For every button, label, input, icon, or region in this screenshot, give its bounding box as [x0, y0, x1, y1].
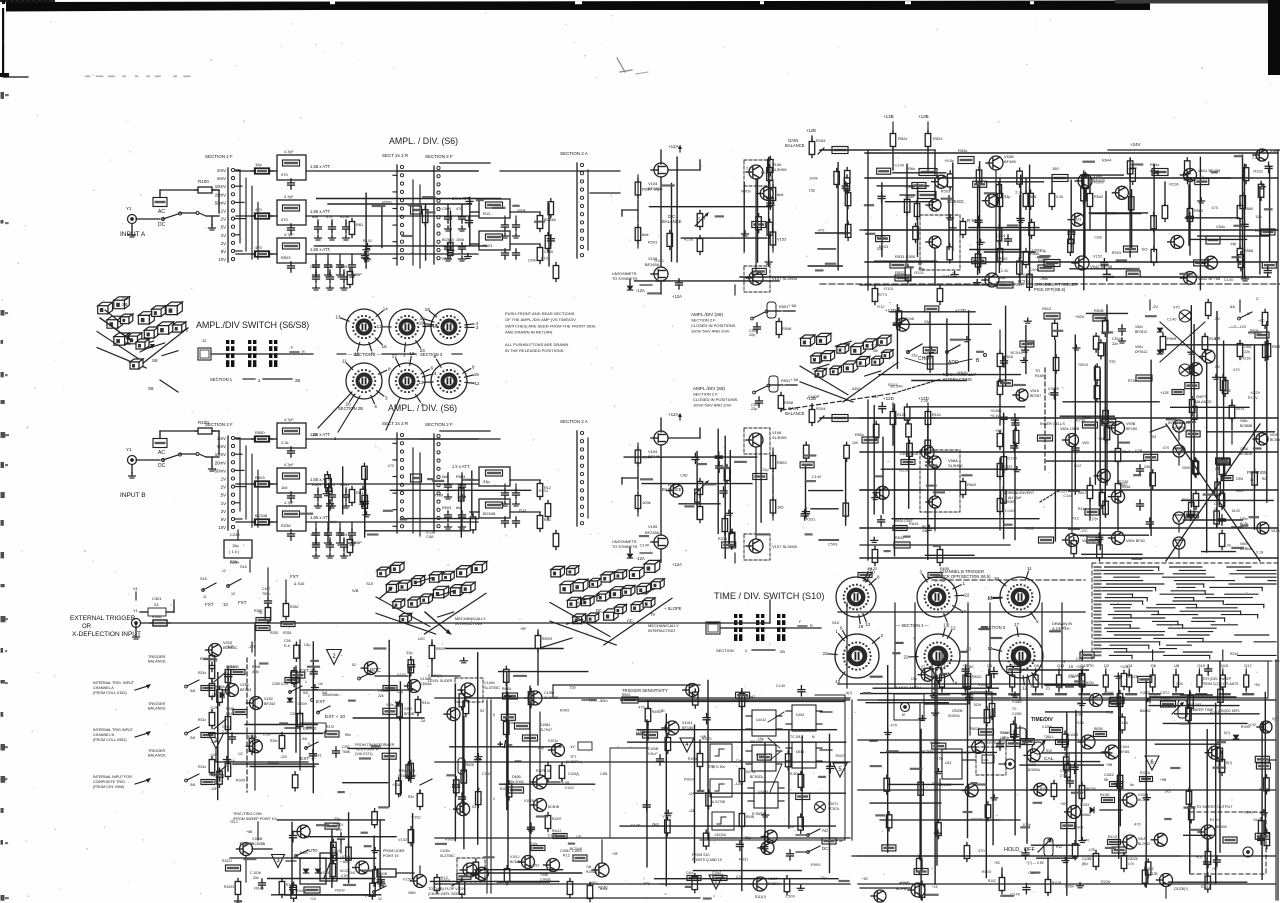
svg-text:R503: R503: [312, 483, 321, 487]
svg-text:R331: R331: [718, 536, 728, 541]
svg-text:SL3T05C: SL3T05C: [484, 686, 500, 690]
svg-text:( 1 k ): ( 1 k ): [229, 549, 240, 554]
svg-text:+51: +51: [1098, 437, 1104, 441]
svg-text:BALANCE: BALANCE: [148, 707, 166, 711]
svg-text:Y1: Y1: [126, 206, 132, 211]
svg-text:2.2k: 2.2k: [1252, 155, 1260, 160]
svg-text:470: 470: [388, 463, 395, 468]
svg-text:C509: C509: [785, 893, 795, 898]
svg-text:+2.2V: +2.2V: [1250, 391, 1260, 395]
svg-text:-2.5Y: -2.5Y: [340, 874, 349, 878]
svg-text:SL3H05: SL3H05: [772, 435, 787, 440]
svg-text:19: 19: [952, 681, 958, 686]
svg-text:SECT 2x 2 R: SECT 2x 2 R: [382, 421, 409, 426]
svg-text:C56: C56: [1144, 465, 1150, 469]
svg-text:C301: C301: [152, 596, 162, 601]
svg-text:BC548: BC548: [1011, 350, 1024, 355]
svg-text:R503: R503: [255, 475, 265, 480]
svg-text:4.7pF: 4.7pF: [284, 418, 294, 422]
svg-text:4.7pF: 4.7pF: [284, 150, 294, 154]
svg-text:10mV: 10mV: [215, 452, 226, 457]
svg-text:X1: X1: [133, 586, 139, 591]
svg-text:R632: R632: [895, 536, 904, 540]
svg-text:BC548C: BC548C: [223, 646, 238, 650]
svg-text:R6x: R6x: [345, 733, 351, 737]
svg-text:50mV: 50mV: [215, 468, 226, 473]
svg-text:V60x BF40: V60x BF40: [1126, 539, 1145, 543]
svg-text:+12A: +12A: [668, 412, 679, 417]
svg-text:R: R: [302, 350, 305, 354]
svg-text:BC548: BC548: [483, 511, 496, 516]
svg-text:R101: R101: [884, 286, 894, 291]
svg-text:R31x: R31x: [422, 701, 430, 705]
svg-text:BC548B: BC548B: [252, 842, 266, 846]
svg-text:R331: R331: [312, 753, 322, 758]
svg-text:15p: 15p: [569, 684, 576, 689]
svg-text:R568: R568: [1244, 249, 1253, 253]
svg-text:R503: R503: [648, 239, 658, 244]
svg-text:BC5HB: BC5HB: [548, 805, 560, 809]
svg-text:R169: R169: [1035, 374, 1044, 378]
svg-text:BF245A: BF245A: [645, 530, 660, 535]
svg-text:V30x: V30x: [386, 703, 394, 707]
svg-text:R236: R236: [281, 523, 291, 528]
svg-text:2mV: 2mV: [217, 168, 226, 173]
svg-text:BALANCE: BALANCE: [148, 660, 166, 664]
svg-text:D613: D613: [796, 750, 804, 754]
svg-text:BF150: BF150: [1126, 427, 1137, 431]
svg-text:1,65 x ATT.: 1,65 x ATT.: [310, 515, 331, 520]
svg-text:FROM LIDER: FROM LIDER: [383, 849, 405, 853]
svg-text:1,65 x ATT.: 1,65 x ATT.: [310, 164, 331, 169]
svg-text:4.7pF: 4.7pF: [284, 233, 294, 237]
svg-text:Q2: Q2: [1104, 663, 1110, 668]
svg-text:S/6: S/6: [190, 736, 195, 740]
svg-text:C88: C88: [1183, 428, 1191, 433]
svg-text:U4Z: U4Z: [945, 761, 951, 765]
svg-text:INNER CELLS: INNER CELLS: [1040, 422, 1065, 426]
svg-text:R26B: R26B: [252, 665, 261, 669]
svg-text:2V: 2V: [221, 509, 226, 514]
svg-text:R771: R771: [878, 293, 887, 297]
svg-text:2: 2: [308, 694, 310, 698]
svg-text:C40x: C40x: [686, 871, 694, 875]
svg-text:C627: C627: [1004, 465, 1012, 469]
svg-text:C140: C140: [1167, 317, 1177, 322]
svg-text:AMPL./DIV (S8): AMPL./DIV (S8): [691, 312, 724, 317]
svg-text:(+5V)DC DEFL: (+5V)DC DEFL: [1218, 709, 1240, 713]
svg-text:R909: R909: [741, 189, 751, 194]
svg-text:R3x: R3x: [408, 795, 414, 799]
svg-text:-17B: -17B: [1088, 848, 1095, 852]
svg-text:+5C: +5C: [862, 877, 869, 881]
svg-text:TO SYMMETR.: TO SYMMETR.: [612, 545, 638, 549]
svg-text:V152: V152: [565, 785, 575, 790]
svg-text:.2V: .2V: [220, 217, 227, 222]
svg-text:R60x: R60x: [855, 433, 864, 437]
svg-text:C25x: C25x: [222, 725, 230, 729]
svg-text:15p: 15p: [911, 353, 918, 358]
svg-text:+24V: +24V: [1130, 142, 1141, 147]
svg-text:470: 470: [638, 704, 645, 709]
svg-text:R550: R550: [382, 200, 392, 205]
svg-text:-12A: -12A: [636, 288, 645, 293]
svg-text:22n: 22n: [1112, 342, 1118, 346]
svg-text:R909: R909: [811, 862, 821, 867]
svg-text::10: :10: [222, 602, 228, 607]
svg-text:12: 12: [378, 897, 382, 901]
svg-text:C: C: [1256, 296, 1259, 301]
svg-text:6a: 6a: [1130, 783, 1134, 787]
svg-text:33p: 33p: [1040, 248, 1047, 253]
svg-text:22k: 22k: [378, 694, 384, 698]
svg-text:BC548: BC548: [1018, 279, 1031, 284]
svg-text:V152: V152: [397, 672, 407, 677]
svg-text:M: M: [902, 713, 905, 717]
svg-text:R716: R716: [1128, 379, 1136, 383]
svg-text:10mV 5mV AND 2mV: 10mV 5mV AND 2mV: [693, 403, 732, 408]
svg-text:+5F: +5F: [1212, 867, 1218, 871]
svg-text:R12: R12: [441, 875, 449, 880]
svg-text:R331: R331: [914, 270, 924, 275]
svg-text:470: 470: [281, 172, 288, 177]
svg-text:5CM: 5CM: [974, 703, 981, 707]
svg-text:R331: R331: [539, 488, 549, 493]
svg-text:SL7H47: SL7H47: [540, 728, 552, 732]
svg-text:11: 11: [1027, 566, 1032, 571]
svg-text:11: 11: [203, 595, 207, 599]
svg-text:TO: TO: [1035, 369, 1040, 373]
svg-text:22p: 22p: [751, 407, 757, 411]
svg-text:470: 470: [1163, 445, 1170, 450]
svg-text:TIME/DIV: TIME/DIV: [1031, 717, 1053, 723]
svg-text:V152: V152: [548, 832, 558, 837]
svg-text:10mV 5mV AND 2mV: 10mV 5mV AND 2mV: [691, 329, 730, 334]
svg-text:C140: C140: [1005, 508, 1015, 513]
svg-text:+13B: +13B: [883, 114, 894, 119]
svg-text:R331: R331: [340, 483, 349, 487]
svg-text:+ 5A: + 5A: [788, 303, 797, 308]
svg-text:BF459: BF459: [1004, 159, 1017, 164]
svg-text:DC: DC: [158, 222, 166, 228]
svg-text:2mV: 2mV: [217, 436, 226, 441]
svg-text:33n: 33n: [253, 876, 259, 880]
svg-text:R562: R562: [1194, 209, 1203, 213]
svg-text:R154: R154: [816, 138, 826, 143]
svg-text:R508: R508: [784, 401, 793, 405]
svg-text:C140: C140: [942, 274, 952, 279]
svg-text:C140: C140: [655, 278, 665, 283]
svg-text:4.7pF: 4.7pF: [284, 195, 294, 199]
svg-text:LEVEL SLIDER: LEVEL SLIDER: [428, 679, 453, 683]
svg-text:(VIA C371): (VIA C371): [355, 752, 373, 756]
svg-text:R542: R542: [1094, 195, 1103, 199]
svg-text:R(?): R(?): [1226, 761, 1232, 765]
svg-text:1,65 x ATT.: 1,65 x ATT.: [310, 209, 331, 214]
svg-text:(FROM COLL.V152): (FROM COLL.V152): [93, 691, 127, 695]
svg-text:R236: R236: [1119, 479, 1129, 484]
svg-text:S/6: S/6: [302, 737, 307, 741]
svg-text:C42B6: C42B6: [1082, 857, 1092, 861]
svg-text:100k: 100k: [456, 238, 464, 242]
svg-text:+(?) — 0.5V: +(?) — 0.5V: [1026, 861, 1045, 865]
svg-text:2B: 2B: [295, 378, 300, 383]
svg-text:R531 C500: R531 C500: [895, 254, 916, 259]
svg-text:C100x: C100x: [484, 681, 495, 685]
svg-text:+5B: +5B: [246, 830, 253, 834]
svg-text:10V: 10V: [218, 257, 226, 262]
svg-text:DC: DC: [158, 463, 166, 469]
svg-text:INTERACTING: INTERACTING: [648, 628, 675, 633]
svg-text:R550: R550: [642, 187, 652, 192]
svg-text:U8: U8: [1174, 663, 1180, 668]
svg-text:Q9: Q9: [1034, 663, 1040, 668]
svg-text:2.2k: 2.2k: [281, 440, 289, 445]
svg-text:INPUT B: INPUT B: [120, 492, 146, 499]
svg-text:V10ZB: V10ZB: [1068, 733, 1079, 737]
svg-text:S10: S10: [366, 581, 374, 586]
svg-text:100k: 100k: [528, 257, 537, 262]
svg-text:470: 470: [1173, 305, 1180, 310]
svg-text:ALT: ALT: [872, 394, 880, 399]
svg-text:SECTION 1: SECTION 1: [210, 377, 233, 382]
svg-text:R101: R101: [654, 258, 664, 263]
svg-text:+1Z: +1Z: [932, 885, 938, 889]
svg-text:-2A: -2A: [420, 719, 426, 723]
svg-text:1k5: 1k5: [281, 485, 288, 490]
svg-text:V152: V152: [264, 697, 273, 701]
svg-text:BALANCE: BALANCE: [1194, 400, 1212, 404]
svg-text:INPUT A: INPUT A: [120, 231, 146, 238]
svg-text:100k: 100k: [458, 493, 467, 498]
svg-text:C100(J): C100(J): [568, 772, 579, 776]
svg-text:C140: C140: [1224, 277, 1234, 282]
svg-text:SECTION: SECTION: [716, 648, 734, 653]
svg-text:+12A: +12A: [672, 294, 682, 299]
svg-text:(B)x: (B)x: [1082, 862, 1088, 866]
svg-text:R331: R331: [1253, 169, 1263, 174]
svg-text:DC: DC: [596, 608, 602, 613]
svg-text:R25B: R25B: [230, 665, 239, 669]
svg-text:S6: S6: [122, 296, 128, 301]
svg-text:6k8: 6k8: [777, 192, 784, 197]
svg-text:UNSYMMETR.: UNSYMMETR.: [612, 272, 638, 276]
svg-text:2.2k: 2.2k: [746, 166, 754, 171]
svg-text:R25x: R25x: [230, 560, 238, 564]
svg-text:R253: R253: [283, 631, 291, 635]
svg-text:V107 SL3H05: V107 SL3H05: [772, 544, 798, 549]
svg-text:— SECTION 2 —: — SECTION 2 —: [348, 352, 382, 357]
svg-text:33p: 33p: [396, 689, 403, 694]
svg-text:R: R: [810, 624, 813, 628]
svg-text:AC: AC: [627, 618, 633, 623]
svg-text:V51F: V51F: [1138, 837, 1146, 841]
svg-text:1V: 1V: [221, 233, 226, 238]
svg-text:R154: R154: [816, 406, 826, 411]
svg-text:19: 19: [474, 372, 480, 377]
svg-text:22: 22: [903, 655, 909, 660]
svg-text:S6: S6: [152, 358, 158, 363]
svg-text:18: 18: [425, 307, 431, 312]
svg-text:R411B: R411B: [1100, 793, 1110, 797]
svg-text:C509: C509: [828, 542, 838, 547]
svg-text:C509: C509: [298, 701, 308, 706]
svg-text:V253: V253: [223, 641, 232, 645]
svg-text:C509: C509: [1023, 272, 1033, 277]
svg-text:BF252: BF252: [264, 702, 275, 706]
svg-text:15p: 15p: [820, 875, 827, 880]
svg-text:+/–: +/–: [497, 739, 513, 751]
svg-text:C35:: C35:: [284, 639, 291, 643]
svg-text:22k: 22k: [1215, 467, 1221, 471]
svg-text:R81: R81: [356, 222, 364, 227]
svg-text:R331: R331: [806, 516, 816, 521]
svg-text:52: 52: [352, 663, 356, 667]
svg-text:BALANCE: BALANCE: [785, 143, 805, 148]
svg-text:C167: C167: [262, 587, 270, 591]
svg-text:X-DEFLECTION INPUT: X-DEFLECTION INPUT: [72, 631, 141, 638]
svg-text:33p: 33p: [406, 650, 413, 655]
svg-text:17: 17: [1014, 622, 1020, 627]
svg-text:S/6: S/6: [190, 689, 195, 693]
svg-text:CLOSED IN POSITIONS: CLOSED IN POSITIONS: [691, 323, 736, 328]
svg-text:R236: R236: [1169, 181, 1179, 186]
svg-text:15p: 15p: [1255, 214, 1262, 219]
svg-text:R104: R104: [1000, 731, 1008, 735]
svg-text:50mV: 50mV: [215, 200, 226, 205]
svg-text:-12A: -12A: [636, 556, 645, 561]
svg-text:+12A: +12A: [392, 783, 401, 787]
svg-text:4.7pF: 4.7pF: [284, 501, 294, 505]
svg-text:R12: R12: [1074, 463, 1082, 468]
svg-text:V104B: V104B: [1140, 691, 1150, 695]
svg-text:POINT 19: POINT 19: [383, 854, 399, 858]
svg-text:SECTION 2 A: SECTION 2 A: [560, 151, 588, 156]
svg-text:A-S1T0B: A-S1T0B: [712, 800, 725, 804]
svg-text:+12A: +12A: [672, 562, 682, 567]
svg-text:CHANNEL A: CHANNEL A: [93, 686, 114, 690]
svg-text:R236: R236: [340, 215, 349, 219]
svg-text:Y1: Y1: [126, 447, 132, 452]
svg-text:PICK OFF(SECTION S6.5): PICK OFF(SECTION S6.5): [940, 574, 991, 579]
svg-text:R107B 16: R107B 16: [536, 769, 550, 773]
svg-text:R-b: R-b: [284, 644, 290, 648]
svg-text:R12: R12: [483, 211, 491, 216]
svg-text:0.5u F: 0.5u F: [648, 752, 657, 756]
svg-text:R550: R550: [255, 430, 265, 435]
svg-text:SECTION 3: SECTION 3: [420, 352, 443, 357]
svg-text:BC90ZA: BC90ZA: [750, 775, 764, 779]
svg-text:R644: R644: [909, 521, 919, 526]
svg-text:BC558B: BC558B: [1240, 424, 1253, 428]
svg-text:33p: 33p: [483, 479, 490, 484]
svg-text:R503: R503: [281, 255, 291, 260]
svg-text:PICK OFF(SB.5): PICK OFF(SB.5): [1034, 287, 1066, 292]
svg-text:C10x2: C10x2: [712, 871, 721, 875]
svg-text:2.2k: 2.2k: [921, 398, 929, 403]
svg-text:C88: C88: [1094, 235, 1102, 240]
svg-text:V50x: V50x: [1135, 345, 1143, 349]
svg-text:SECT 2x 2 R: SECT 2x 2 R: [382, 153, 409, 158]
svg-text:1: 1: [305, 680, 307, 684]
svg-text:15p: 15p: [232, 543, 239, 548]
svg-text:100k: 100k: [517, 208, 526, 213]
svg-text:UNSYMMETR.: UNSYMMETR.: [612, 540, 638, 544]
svg-text:V152: V152: [441, 255, 451, 260]
svg-text:R508: R508: [782, 327, 791, 331]
svg-text:EXTERNAL TRIGGER: EXTERNAL TRIGGER: [70, 615, 136, 622]
svg-text:C140: C140: [631, 823, 641, 828]
svg-text:10mV: 10mV: [215, 184, 226, 189]
svg-text:R236: R236: [899, 881, 909, 886]
svg-text:TIME / DIV. SWITCH (S10): TIME / DIV. SWITCH (S10): [714, 591, 824, 601]
svg-text:ALL PUSHBUTTONS ARE DRAWN: ALL PUSHBUTTONS ARE DRAWN: [505, 342, 569, 347]
svg-text:V10x0: V10x0: [1104, 691, 1114, 695]
svg-text:INTERNAL TRIG. INPUT: INTERNAL TRIG. INPUT: [93, 681, 135, 685]
svg-text:33p: 33p: [745, 835, 752, 840]
svg-text:U1012: U1012: [756, 718, 766, 722]
svg-text:R236: R236: [899, 467, 909, 472]
svg-text:+12E: +12E: [1160, 391, 1169, 395]
svg-text:C1F1J: C1F1J: [1160, 691, 1170, 695]
svg-text:R503: R503: [456, 475, 465, 479]
svg-text:CHANNEL B: CHANNEL B: [93, 733, 115, 737]
svg-text:11: 11: [377, 324, 382, 329]
svg-text:BC548C: BC548C: [510, 860, 523, 864]
svg-text:R900S: R900S: [542, 637, 553, 641]
svg-text:BC5x: BC5x: [1086, 681, 1094, 685]
svg-text:S10: S10: [832, 620, 840, 625]
svg-text:SECTION 2 F: SECTION 2 F: [425, 154, 453, 159]
svg-text:(5.8): (5.8): [252, 670, 259, 674]
svg-text:33p: 33p: [1004, 195, 1010, 199]
svg-text:+5F: +5F: [520, 627, 526, 631]
svg-text:2.2k: 2.2k: [1223, 543, 1231, 548]
svg-text:R41JZ: R41JZ: [1108, 835, 1117, 839]
svg-text:Q10: Q10: [1197, 663, 1205, 668]
svg-text:R52x: R52x: [898, 136, 907, 141]
svg-text:V101x: V101x: [548, 739, 558, 743]
svg-text:R1001: R1001: [296, 889, 306, 893]
svg-text:22: 22: [823, 651, 829, 656]
svg-text:BC4HC: BC4HC: [1216, 825, 1228, 829]
svg-text:R10Z: R10Z: [988, 879, 996, 883]
svg-text:EXT: EXT: [316, 699, 325, 705]
svg-text:TC-15L4: TC-15L4: [790, 735, 803, 739]
svg-text:15p: 15p: [762, 467, 769, 472]
svg-text:SECTION 2 A: SECTION 2 A: [560, 419, 588, 424]
svg-text:(FROM COLL.V552): (FROM COLL.V552): [93, 738, 127, 742]
svg-text:470: 470: [255, 207, 262, 212]
svg-text:(EXT.)DEL SWEEP: (EXT.)DEL SWEEP: [1202, 677, 1232, 681]
svg-text:+9M: +9M: [1106, 763, 1113, 767]
svg-text:-2V: -2V: [1152, 305, 1158, 309]
svg-text:10: 10: [870, 569, 876, 574]
svg-text:R12: R12: [1072, 515, 1080, 520]
svg-text:2.2k: 2.2k: [1001, 268, 1009, 273]
svg-text:CLOSED IN POSITIONS: CLOSED IN POSITIONS: [693, 397, 738, 402]
svg-text:NORMAL/INVERT: NORMAL/INVERT: [1003, 491, 1035, 495]
svg-text:S2: S2: [480, 709, 484, 713]
svg-text:+ 50: + 50: [658, 709, 665, 713]
svg-text:R50ZA: R50ZA: [970, 727, 981, 731]
svg-text:BC550A: BC550A: [1028, 768, 1041, 772]
svg-text:C140: C140: [895, 162, 905, 167]
svg-text:15p: 15p: [304, 642, 311, 647]
svg-text:R331: R331: [426, 530, 436, 535]
svg-text:C509: C509: [1182, 466, 1190, 470]
svg-text:TRIGGER: TRIGGER: [148, 702, 166, 706]
